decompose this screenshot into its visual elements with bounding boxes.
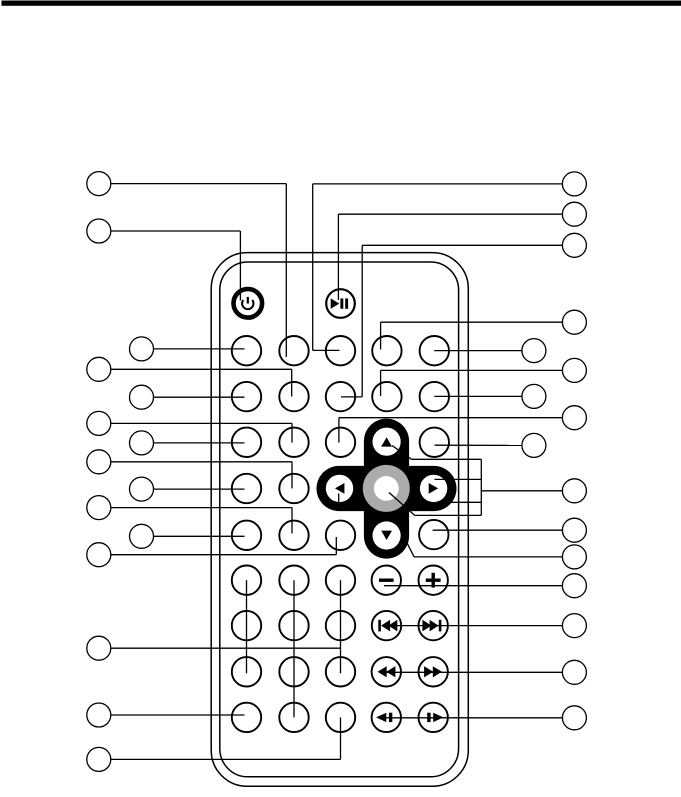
button row3 col1 <box>232 428 261 457</box>
left callout circle 4 <box>87 411 111 435</box>
button row5 col2 <box>279 521 308 550</box>
button row7 col1 <box>232 611 261 640</box>
d-pad center button <box>363 465 410 512</box>
wire: left inner callout row3 <box>154 442 245 444</box>
wire: left outer callout to row2 col2 <box>111 369 292 396</box>
step back button <box>372 703 401 732</box>
wire: top-left callout 1 to row1 col2 <box>111 184 286 357</box>
right callout circle 11 <box>562 614 586 638</box>
previous track button <box>372 611 401 640</box>
button row9 col2 <box>279 703 308 732</box>
wire: number pad col1 chain <box>246 580 248 673</box>
wire: number pad col3 chain <box>340 580 342 673</box>
volume up button <box>419 566 448 595</box>
wire: right callout to step buttons <box>386 717 562 719</box>
button row6 col2 <box>279 566 308 595</box>
wire: center button to bracket <box>389 493 481 516</box>
wire: left outer callout to row9 col3 <box>111 717 341 759</box>
wire: left inner callout row1 <box>154 348 245 350</box>
button row7 col2 <box>279 611 308 640</box>
next track button <box>419 611 448 640</box>
right inner callout circle 3 <box>522 433 546 457</box>
button row2 col3 <box>326 382 355 411</box>
power button <box>234 289 263 318</box>
button row3 col3 <box>326 428 355 457</box>
wire: right callout to row2 col4 <box>381 370 563 396</box>
wire: top-right callout 3 to row2 col3 <box>341 245 562 397</box>
remote body inner outline <box>220 262 459 777</box>
left inner callout circle 5 <box>130 524 154 548</box>
button row9 col1 <box>232 703 261 732</box>
left callout circle 3 <box>87 357 111 381</box>
wire: top-right callout 2 to play/pause <box>338 214 562 300</box>
left inner callout circle 3 <box>130 431 154 455</box>
wire: left outer callout to number pad col3 <box>111 647 341 649</box>
right callout circle 12 <box>562 660 586 684</box>
button row1 col2 <box>279 336 308 365</box>
right callout circle 10 <box>562 574 586 598</box>
button row8 col1 <box>232 657 261 686</box>
right callout circle 9 <box>562 545 586 569</box>
left callout circle 10 <box>87 747 111 771</box>
wire: right callout to row1 col4 <box>381 322 563 349</box>
wire: right arrow upper to bracket <box>435 478 482 480</box>
wire: right arrow lower to bracket <box>447 501 481 503</box>
wire: top-right callout 1 to row1 col3 <box>313 184 563 351</box>
left callout circle 2 <box>87 219 111 243</box>
wire: number pad col2 chain <box>293 580 295 717</box>
right callout circle 7 <box>562 479 586 503</box>
button row4 col1 <box>232 474 261 503</box>
right callout circle 2 <box>562 202 586 226</box>
play/pause button <box>326 289 355 318</box>
left callout circle 9 <box>87 703 111 727</box>
button row3 col2 <box>279 428 308 457</box>
d-pad left button <box>326 475 353 502</box>
button row6 col1 <box>232 566 261 595</box>
left callout circle 8 <box>87 636 111 660</box>
wire: up arrow to bracket <box>392 446 481 460</box>
right callout circle 6 <box>562 406 586 430</box>
wire: top-left callout 2 to power button <box>111 231 241 301</box>
wire: left outer callout to row9 col1 <box>111 714 245 716</box>
button row1 col3 <box>326 336 355 365</box>
d-pad right button <box>420 475 447 502</box>
right inner callout circle 2 <box>522 384 546 408</box>
wire: down arrow to right callout <box>406 540 563 557</box>
wire: right inner callout row3 col5 <box>435 444 522 446</box>
wire: left inner callout row2 <box>154 396 245 398</box>
wire: left inner callout row4 <box>154 488 245 490</box>
button row4 col2 <box>279 474 308 503</box>
right callout circle 4 <box>562 310 586 334</box>
left callout circle 5 <box>87 450 111 474</box>
wire: right inner callout row1 col5 <box>434 350 522 352</box>
button row5 col1 <box>232 521 261 550</box>
wire: bracket to right callout <box>481 490 562 492</box>
right callout circle 3 <box>562 233 586 257</box>
right callout circle 13 <box>562 706 586 730</box>
right callout circle 8 <box>562 518 586 542</box>
wire: right callout to track buttons <box>387 625 563 627</box>
fast forward button <box>419 657 448 686</box>
right callout circle 1 <box>562 172 586 196</box>
right callout circle 5 <box>562 358 586 382</box>
button row3 col5 <box>420 428 449 457</box>
button row5 col3 <box>326 521 355 550</box>
rewind button <box>372 657 401 686</box>
wire: right inner callout row2 col5 <box>434 395 522 397</box>
left callout circle 7 <box>87 543 111 567</box>
wire: left arrow stub <box>338 494 340 503</box>
volume down button <box>372 566 401 595</box>
wire: left outer callout to row4 col2 <box>111 462 292 489</box>
step forward button <box>419 703 448 732</box>
left callout circle 1 <box>87 172 111 196</box>
remote body outer outline <box>211 253 468 787</box>
button row7 col3 <box>326 611 355 640</box>
button row5 col5 <box>419 520 448 549</box>
button row1 col5 <box>420 336 449 365</box>
left inner callout circle 2 <box>130 385 154 409</box>
button row2 col4 <box>372 382 401 411</box>
wire: right callout to volume buttons <box>384 585 562 587</box>
button row2 col1 <box>232 382 261 411</box>
right inner callout circle 1 <box>522 339 546 363</box>
left inner callout circle 1 <box>130 337 154 361</box>
button row1 col4 <box>372 336 401 365</box>
button row2 col2 <box>279 382 308 411</box>
wire: right callout to row5 col5 <box>433 529 563 531</box>
left inner callout circle 4 <box>130 477 154 501</box>
button row1 col1 <box>232 336 261 365</box>
wire: left inner callout row5 <box>154 535 245 537</box>
d-pad cross <box>317 419 457 559</box>
d-pad up button <box>373 428 401 456</box>
wire: left outer callout to row5 col2 <box>111 508 292 534</box>
d-pad down button <box>373 521 401 549</box>
button row6 col3 <box>326 566 355 595</box>
wire: right callout to row3 col3 <box>339 418 563 443</box>
button row8 col3 <box>326 657 355 686</box>
bracket vertical <box>480 459 482 515</box>
header bar <box>2 1 681 6</box>
wire: left outer callout to row5 col3 <box>111 537 336 555</box>
wire: right callout to scan buttons <box>386 671 562 673</box>
button row2 col5 <box>420 382 449 411</box>
button row8 col2 <box>279 657 308 686</box>
left callout circle 6 <box>87 496 111 520</box>
wire: left outer callout to row3 col2 <box>111 423 292 442</box>
button row9 col3 <box>326 703 355 732</box>
